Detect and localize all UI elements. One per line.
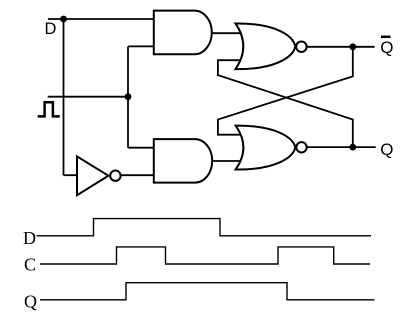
wire bottom AND output (212, 160, 242, 162)
svg-text:Q: Q (380, 140, 393, 159)
svg-text:Q: Q (24, 291, 37, 311)
wire clock vertical (127, 46, 129, 147)
waveform C (40, 247, 370, 264)
junction dot node Q-bar (349, 43, 356, 50)
junction dot node D (60, 16, 67, 23)
waveform Q (40, 283, 375, 300)
wire D input (48, 18, 154, 20)
wire bottom AND upper input (128, 147, 154, 149)
wire Q output (307, 146, 376, 148)
wire top AND lower input (128, 45, 154, 47)
svg-text:D: D (45, 20, 57, 38)
AND gate U2 (bottom) (154, 139, 212, 183)
wire inverter input (64, 174, 78, 176)
inverter U3 (77, 156, 121, 195)
AND gate U1 (top) (154, 11, 212, 55)
wire Q-bar output (307, 46, 375, 48)
junction dot node Q (349, 144, 356, 151)
label Q-bar output (380, 36, 393, 58)
wire clock (48, 96, 128, 98)
svg-text:C: C (24, 255, 36, 275)
wire D vertical (63, 19, 65, 175)
junction dot clock node (125, 93, 132, 100)
wire inverter output (121, 174, 154, 176)
waveform D (37, 219, 372, 236)
clock pulse symbol (38, 102, 60, 116)
wire cross feedback Q-bar to bottom NOR input (218, 47, 353, 135)
svg-text:Q: Q (380, 38, 393, 57)
svg-text:D: D (23, 228, 36, 248)
wire cross feedback Q to top NOR input (218, 60, 353, 147)
NOR gate U5 (bottom) (236, 126, 307, 170)
wire top AND output (212, 32, 242, 34)
NOR gate U4 (top) (236, 23, 307, 69)
